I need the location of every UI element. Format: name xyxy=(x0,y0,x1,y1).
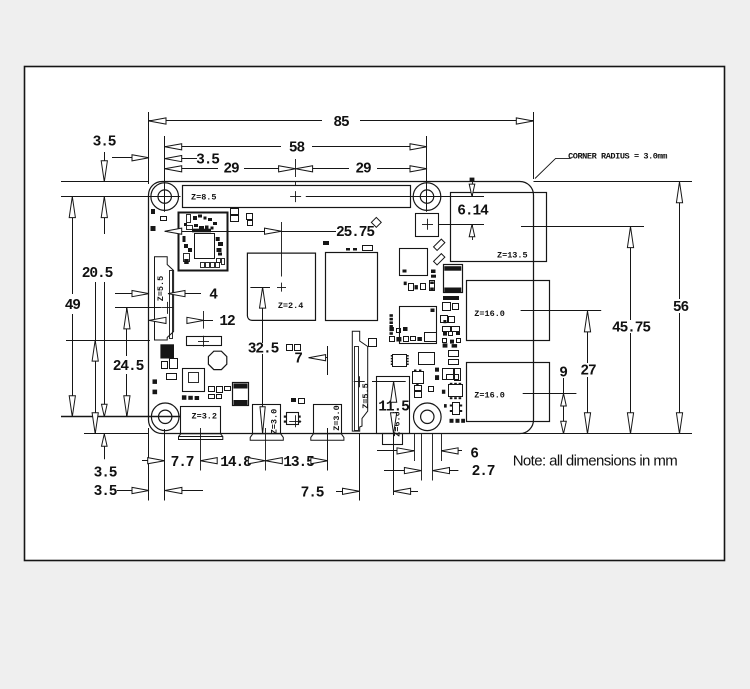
svg-text:27: 27 xyxy=(580,364,596,380)
svg-text:Z=5.5: Z=5.5 xyxy=(361,383,371,409)
svg-text:CORNER RADIUS = 3.0mm: CORNER RADIUS = 3.0mm xyxy=(568,152,667,162)
svg-text:29: 29 xyxy=(223,162,239,178)
svg-text:6: 6 xyxy=(470,447,478,463)
svg-text:32.5: 32.5 xyxy=(248,342,279,358)
svg-text:2.7: 2.7 xyxy=(472,464,495,480)
svg-text:6.14: 6.14 xyxy=(457,204,489,220)
svg-text:20.5: 20.5 xyxy=(82,266,113,282)
svg-text:Z=8.5: Z=8.5 xyxy=(191,192,217,202)
svg-text:Z=3.0: Z=3.0 xyxy=(270,409,280,435)
svg-text:58: 58 xyxy=(289,141,305,157)
svg-text:9: 9 xyxy=(559,366,567,382)
svg-text:14.8: 14.8 xyxy=(220,455,251,471)
svg-text:Z=13.5: Z=13.5 xyxy=(497,251,528,261)
svg-text:25.75: 25.75 xyxy=(336,225,374,241)
svg-text:3.5: 3.5 xyxy=(93,135,116,151)
svg-text:29: 29 xyxy=(355,162,371,178)
svg-text:56: 56 xyxy=(673,300,689,316)
svg-text:3.5: 3.5 xyxy=(196,152,219,168)
svg-text:7.5: 7.5 xyxy=(301,485,324,501)
svg-text:Z=2.4: Z=2.4 xyxy=(278,301,304,311)
svg-text:12: 12 xyxy=(219,314,235,330)
svg-text:Z=16.0: Z=16.0 xyxy=(474,309,505,319)
svg-text:Note: all dimensions in mm: Note: all dimensions in mm xyxy=(513,452,678,469)
svg-text:3.5: 3.5 xyxy=(94,466,117,482)
svg-text:Z=3.0: Z=3.0 xyxy=(332,405,342,431)
svg-text:Z=3.2: Z=3.2 xyxy=(192,412,218,422)
svg-text:Z=16.0: Z=16.0 xyxy=(474,391,505,401)
svg-text:3.5: 3.5 xyxy=(94,484,117,500)
svg-text:7.7: 7.7 xyxy=(171,455,194,471)
svg-text:49: 49 xyxy=(65,298,81,314)
svg-text:45.75: 45.75 xyxy=(612,321,650,337)
svg-text:7: 7 xyxy=(294,352,302,368)
svg-text:85: 85 xyxy=(333,115,349,131)
svg-text:Z=5.5: Z=5.5 xyxy=(156,276,166,302)
svg-text:24.5: 24.5 xyxy=(113,359,144,375)
svg-text:13.5: 13.5 xyxy=(283,455,314,471)
